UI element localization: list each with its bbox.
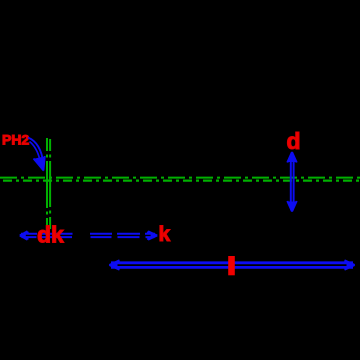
svg-text:dk: dk [37,222,64,248]
svg-text:PH2: PH2 [2,132,29,148]
svg-text:k: k [159,223,171,246]
wire leader arrow from PH2 to plane (blue curved) [28,138,45,171]
wire dimension line k (blue dashed, y=235.5) [20,231,157,239]
svg-text:d: d [287,128,301,154]
label l [228,256,235,275]
node PH2 plane (green vertical dash-dot at x=48) [47,138,50,231]
wire optical axis (green dash-dot), pass 1 [0,177,360,179]
wire dimension line l (blue double line, y=265) [109,260,354,269]
wire optical axis pass 2 [0,180,360,182]
component aperture diameter arrow d (blue, double headed, x=292) [287,152,296,212]
